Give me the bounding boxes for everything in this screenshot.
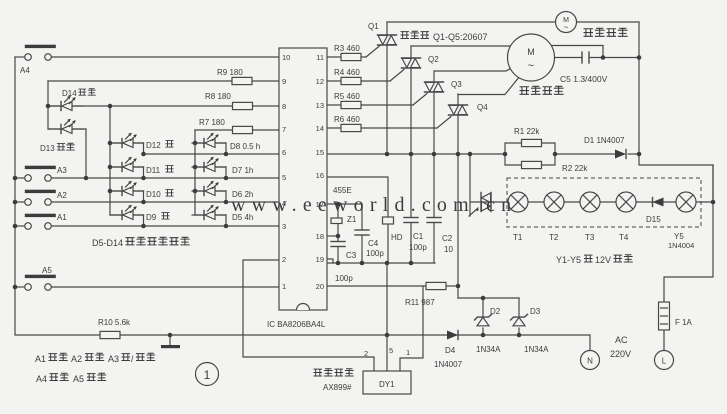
- svg-text:A3: A3: [108, 354, 119, 364]
- svg-text:7: 7: [282, 125, 286, 134]
- svg-text:D8 0.5 h: D8 0.5 h: [230, 142, 260, 151]
- svg-text:AC: AC: [615, 335, 628, 345]
- svg-text:A5: A5: [73, 374, 84, 384]
- svg-text:A3: A3: [57, 166, 67, 175]
- svg-text:R11 987: R11 987: [405, 298, 435, 307]
- svg-text:16: 16: [316, 171, 324, 180]
- svg-text:R2 22k: R2 22k: [562, 164, 588, 173]
- svg-text:~: ~: [528, 60, 534, 72]
- svg-text:N: N: [587, 357, 593, 366]
- svg-text:2: 2: [282, 255, 286, 264]
- svg-text:A4: A4: [20, 66, 30, 75]
- svg-text:1: 1: [282, 282, 286, 291]
- svg-text:D12: D12: [146, 141, 161, 150]
- svg-text:R5 460: R5 460: [334, 92, 360, 101]
- svg-text:Z1: Z1: [347, 215, 357, 224]
- svg-text:9: 9: [282, 77, 286, 86]
- svg-text:T3: T3: [585, 233, 595, 242]
- svg-text:D14: D14: [62, 89, 77, 98]
- svg-text:10: 10: [282, 53, 290, 62]
- svg-text:R8 180: R8 180: [205, 92, 231, 101]
- svg-text:D13: D13: [40, 144, 55, 153]
- svg-text:D7 1h: D7 1h: [232, 166, 253, 175]
- svg-text:12V: 12V: [595, 255, 611, 265]
- svg-text:A4: A4: [36, 374, 47, 384]
- svg-text:6: 6: [282, 148, 286, 157]
- svg-text:1: 1: [204, 368, 211, 382]
- svg-text:T1: T1: [513, 233, 523, 242]
- svg-text:L: L: [662, 357, 667, 366]
- svg-text:18: 18: [316, 232, 324, 241]
- svg-text:1N34A: 1N34A: [524, 345, 549, 354]
- svg-text:R1 22k: R1 22k: [514, 127, 540, 136]
- svg-text:11: 11: [316, 53, 324, 62]
- svg-text:D4: D4: [445, 346, 456, 355]
- svg-text:D15: D15: [646, 215, 661, 224]
- svg-text:AX899#: AX899#: [323, 383, 352, 392]
- svg-text:Q1: Q1: [368, 22, 379, 31]
- svg-text:C4: C4: [368, 239, 379, 248]
- svg-text:C2: C2: [442, 234, 453, 243]
- svg-text:R7 180: R7 180: [199, 118, 225, 127]
- svg-text:12: 12: [316, 77, 324, 86]
- svg-text:Q1-Q5:20607: Q1-Q5:20607: [433, 32, 488, 42]
- svg-text:~: ~: [564, 23, 569, 32]
- svg-text:Q3: Q3: [451, 80, 462, 89]
- svg-text:F 1A: F 1A: [675, 318, 693, 327]
- svg-text:M: M: [527, 47, 535, 57]
- svg-text:DY1: DY1: [379, 380, 395, 389]
- svg-text:D1 1N4007: D1 1N4007: [584, 136, 625, 145]
- svg-text:Q2: Q2: [428, 55, 439, 64]
- svg-text:5: 5: [282, 173, 286, 182]
- svg-text:R10 5.6k: R10 5.6k: [98, 318, 131, 327]
- svg-text:D2: D2: [490, 307, 501, 316]
- svg-text:Y1-Y5: Y1-Y5: [556, 255, 581, 265]
- svg-text:C1: C1: [413, 232, 424, 241]
- svg-text:220V: 220V: [610, 349, 631, 359]
- svg-text:C3: C3: [346, 251, 357, 260]
- svg-text:Q4: Q4: [477, 103, 488, 112]
- svg-text:15: 15: [316, 148, 324, 157]
- svg-text:www.eeworld.com.cn: www.eeworld.com.cn: [231, 194, 517, 216]
- svg-text:100p: 100p: [409, 243, 427, 252]
- svg-text:5: 5: [389, 346, 393, 355]
- svg-text:T4: T4: [619, 233, 629, 242]
- svg-text:D9: D9: [146, 213, 157, 222]
- svg-text:3: 3: [282, 222, 286, 231]
- svg-text:D11: D11: [146, 166, 161, 175]
- svg-text:D10: D10: [146, 190, 161, 199]
- svg-text:100p: 100p: [335, 274, 353, 283]
- svg-text:13: 13: [316, 101, 324, 110]
- svg-text:A1: A1: [35, 354, 46, 364]
- svg-text:2: 2: [364, 349, 368, 358]
- svg-text:R3 460: R3 460: [334, 44, 360, 53]
- svg-text:R6 460: R6 460: [334, 115, 360, 124]
- svg-text:C5 1.3/400V: C5 1.3/400V: [560, 74, 608, 84]
- svg-text:Y5: Y5: [674, 232, 684, 241]
- svg-text:A2: A2: [57, 191, 67, 200]
- svg-text:1N4007: 1N4007: [434, 360, 463, 369]
- svg-text:R9 180: R9 180: [217, 68, 243, 77]
- svg-text:T2: T2: [549, 233, 559, 242]
- svg-text:19: 19: [316, 255, 324, 264]
- svg-text:20: 20: [316, 282, 324, 291]
- svg-text:A1: A1: [57, 213, 67, 222]
- svg-text:HD: HD: [391, 233, 403, 242]
- svg-text:D3: D3: [530, 307, 541, 316]
- svg-text:14: 14: [316, 124, 324, 133]
- svg-text:10: 10: [444, 245, 453, 254]
- svg-text:IC BA8206BA4L: IC BA8206BA4L: [267, 320, 326, 329]
- svg-text:100p: 100p: [366, 249, 384, 258]
- svg-text:A2: A2: [71, 354, 82, 364]
- svg-text:D5-D14: D5-D14: [92, 238, 123, 248]
- svg-text:1: 1: [406, 348, 410, 357]
- svg-text:1N4004: 1N4004: [668, 241, 694, 250]
- svg-text:R4 460: R4 460: [334, 68, 360, 77]
- svg-text:8: 8: [282, 102, 286, 111]
- svg-text:A5: A5: [42, 266, 52, 275]
- svg-text:1N34A: 1N34A: [476, 345, 501, 354]
